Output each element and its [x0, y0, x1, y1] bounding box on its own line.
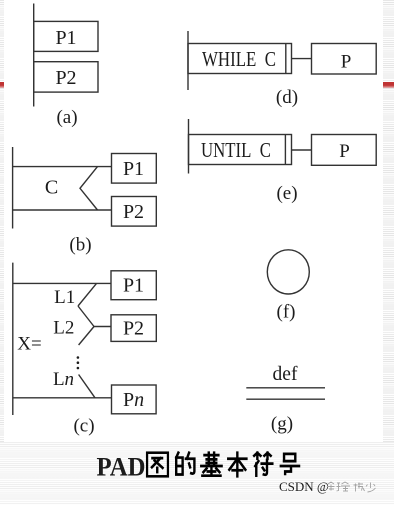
svg-text:P1: P1 — [55, 27, 76, 49]
svg-text:P2: P2 — [123, 318, 144, 340]
svg-text:C: C — [45, 177, 58, 199]
(g) definition top line — [246, 387, 325, 389]
(c) branch segment below P2 — [79, 327, 94, 346]
(a) vertical control line — [33, 4, 35, 107]
(d) connector wire — [292, 58, 312, 60]
char tu 图 — [147, 453, 168, 477]
svg-text:L2: L2 — [53, 318, 74, 339]
bottom stripe band — [0, 442, 394, 505]
char fu 符 — [254, 453, 272, 476]
svg-text:(d): (d) — [276, 87, 298, 108]
svg-text:P1: P1 — [123, 275, 144, 297]
left page-edge stripe band — [0, 0, 4, 505]
svg-text:WHILE C: WHILE C — [202, 47, 276, 71]
(a) process box P1 — [34, 21, 98, 51]
(c) branch segment to P2 junction — [78, 306, 94, 327]
red mark left edge — [0, 82, 4, 89]
(c) ellipsis dots — [77, 356, 80, 369]
(c) wire stub to P2 — [94, 326, 111, 328]
svg-text:Pn: Pn — [123, 389, 144, 411]
(c) vertical control line — [12, 263, 14, 415]
(b) process box P2 — [112, 197, 157, 227]
(c) process box P2 — [111, 315, 156, 342]
svg-text:(b): (b) — [69, 235, 91, 256]
svg-text:P: P — [341, 52, 352, 73]
(b) selection chevron — [80, 167, 98, 210]
svg-text:P2: P2 — [123, 201, 144, 223]
(b) selection top wire — [13, 166, 112, 168]
(b) process box P1 — [112, 154, 157, 184]
(d) while box inner double line — [285, 44, 287, 74]
(e) process box P — [312, 135, 377, 166]
(d) vertical control line — [187, 31, 189, 90]
(e) until box inner double line — [284, 135, 286, 165]
(b) selection bottom wire — [13, 209, 112, 211]
svg-text:UNTIL C: UNTIL C — [201, 138, 271, 162]
svg-text:(g): (g) — [271, 414, 293, 435]
char ben 本 — [228, 453, 246, 477]
title CJK: 图的基本符号 drawn as strokes — [147, 453, 299, 477]
char de 的 — [176, 453, 194, 475]
svg-text:L1: L1 — [54, 287, 75, 308]
svg-text:(a): (a) — [56, 107, 77, 128]
red mark right edge — [383, 82, 394, 89]
(c) branch segment to bottom wire — [79, 375, 95, 398]
svg-text:(f): (f) — [277, 302, 296, 323]
(c) bottom wire to Pn — [13, 397, 111, 399]
svg-text:P: P — [339, 141, 350, 162]
svg-text:P2: P2 — [55, 67, 76, 89]
(e) vertical control line — [188, 119, 190, 174]
(d) process box P — [312, 44, 377, 75]
svg-text:(e): (e) — [276, 183, 297, 204]
right page-edge stripe band — [383, 0, 394, 505]
(e) connector wire — [292, 149, 312, 151]
(g) definition bottom line — [246, 398, 325, 400]
(c) process box Pn — [112, 385, 157, 414]
(c) process box P1 — [111, 271, 156, 300]
watermark CJK glyph blocks — [328, 482, 376, 492]
(d) while loop box — [188, 44, 292, 74]
char hao 号 — [281, 454, 299, 474]
(c) top wire to P1 — [13, 282, 111, 284]
svg-text:(c): (c) — [73, 416, 94, 437]
svg-text:PAD: PAD — [97, 453, 146, 482]
(f) statement circle — [267, 250, 309, 294]
(b) vertical control line — [12, 147, 14, 229]
(e) until loop box — [189, 135, 292, 165]
svg-text:P1: P1 — [123, 158, 144, 180]
watermark CSDN — [279, 479, 376, 494]
(c) branch segment L1 upper — [78, 283, 97, 306]
svg-text:X=: X= — [17, 334, 41, 355]
(a) process box P2 — [34, 62, 98, 92]
char ji 基 — [201, 453, 221, 476]
svg-text:def: def — [273, 364, 298, 385]
svg-text:Ln: Ln — [53, 369, 74, 390]
svg-text:CSDN @: CSDN @ — [279, 479, 329, 494]
